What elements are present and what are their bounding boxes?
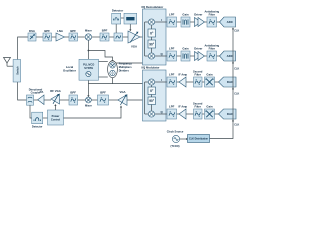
label VGA RX bbox=[131, 45, 137, 49]
ADC2 bbox=[220, 51, 236, 61]
wire mixer2 to BPF5 bbox=[91, 99, 97, 101]
amplifier VGA RX bbox=[128, 31, 140, 43]
label CLK 1 bbox=[234, 30, 239, 33]
svg-text:Frequency: Frequency bbox=[119, 62, 133, 66]
wire LO junction to multiplier oval bbox=[88, 51, 113, 63]
phase shifter 0deg demod bbox=[148, 29, 156, 37]
filter BPF3 bbox=[100, 33, 109, 41]
label Detector bbox=[112, 9, 124, 13]
svg-text:Gain: Gain bbox=[182, 46, 189, 50]
wire TXa row segments bbox=[177, 81, 219, 83]
wire coupler to detector3 bbox=[30, 105, 32, 118]
svg-text:Power: Power bbox=[52, 114, 60, 118]
wire detector1 tap bbox=[115, 24, 117, 33]
wire switch to RX chain (vertical riser) bbox=[18, 37, 28, 60]
node LO junction bbox=[88, 50, 90, 52]
wire power control to TX VGA bbox=[64, 106, 123, 119]
wire BPF1 to LNA bbox=[52, 36, 57, 38]
svg-text:PA: PA bbox=[40, 90, 44, 94]
svg-text:LPF: LPF bbox=[169, 104, 175, 108]
driver A1 bbox=[195, 18, 205, 27]
wire detector2 to VGA control bbox=[129, 24, 131, 31]
svg-text:LPF: LPF bbox=[169, 72, 175, 76]
wire LO to demodulator bbox=[99, 48, 152, 63]
label I/Q Demodulator bbox=[142, 5, 165, 9]
node I bbox=[161, 18, 162, 22]
svg-text:90°: 90° bbox=[149, 42, 155, 46]
svg-text:Mixer: Mixer bbox=[85, 103, 92, 107]
svg-text:Filter: Filter bbox=[209, 12, 215, 16]
PLL/VCO synthesizer U3 bbox=[79, 59, 99, 80]
power control U4 bbox=[48, 110, 64, 125]
svg-text:I/Q Modulator: I/Q Modulator bbox=[142, 65, 161, 69]
amplifier LNA bbox=[56, 33, 65, 41]
label BPF2 bbox=[70, 29, 76, 33]
svg-text:Gain: Gain bbox=[206, 72, 213, 76]
svg-text:BPF: BPF bbox=[44, 29, 50, 33]
svg-text:Driver: Driver bbox=[194, 46, 203, 50]
detector D2 RSSI bbox=[124, 13, 137, 24]
mixer U2b bbox=[148, 111, 154, 117]
phase shifter 90deg demod bbox=[148, 40, 156, 48]
amplifier TX VGA bbox=[118, 95, 127, 106]
node Q bbox=[161, 52, 164, 56]
label LPF I bbox=[169, 12, 175, 16]
wire demod Q output bbox=[155, 55, 167, 57]
svg-text:Gain: Gain bbox=[206, 104, 213, 108]
label CLK 2 bbox=[234, 68, 239, 71]
svg-text:Mixer: Mixer bbox=[85, 28, 92, 32]
svg-text:Filter: Filter bbox=[195, 72, 201, 76]
wire BPF5 to TX VGA bbox=[109, 99, 118, 101]
label DSA bbox=[29, 29, 35, 33]
wire demod input bus bbox=[145, 22, 149, 56]
svg-text:Oscillator: Oscillator bbox=[63, 68, 77, 72]
wire LO to modulator bbox=[88, 83, 142, 85]
amplifier RF VGA bbox=[51, 94, 60, 104]
filter second TXb bbox=[194, 109, 203, 119]
svg-text:I/Q Demodulator: I/Q Demodulator bbox=[142, 5, 165, 9]
svg-text:Switch: Switch bbox=[15, 66, 19, 75]
svg-text:BPF: BPF bbox=[70, 29, 76, 33]
svg-text:Detector: Detector bbox=[32, 124, 43, 128]
svg-text:90°: 90° bbox=[149, 99, 155, 103]
wire TXb row segments bbox=[177, 113, 219, 115]
node I mod bbox=[161, 78, 162, 82]
filter BPF5 bbox=[98, 95, 109, 105]
gain block G1 bbox=[181, 17, 190, 27]
svg-text:LNA: LNA bbox=[57, 29, 63, 33]
wire oval bottom tee bbox=[112, 78, 114, 84]
svg-text:SYNTH: SYNTH bbox=[84, 66, 93, 70]
filter LPF I bbox=[167, 17, 177, 27]
driver A2 bbox=[195, 52, 205, 61]
detector D1 bbox=[112, 13, 121, 24]
svg-text:CLK: CLK bbox=[234, 124, 239, 127]
wire LNA to BPF2 bbox=[65, 36, 70, 38]
filter LPF TXa bbox=[167, 77, 177, 87]
svg-text:Multipliers: Multipliers bbox=[119, 65, 133, 69]
label TX VGA bbox=[119, 90, 125, 94]
svg-text:VGA: VGA bbox=[119, 90, 125, 94]
svg-text:LPF: LPF bbox=[169, 12, 175, 16]
mixer M1 bbox=[85, 34, 91, 40]
antenna bbox=[4, 58, 11, 67]
wire switch to coupler (TX) bbox=[18, 82, 27, 100]
I/Q modulator U2 bbox=[143, 70, 167, 121]
ADC1 bbox=[220, 17, 236, 27]
wire detector link bbox=[121, 17, 124, 19]
wire BPF4 to mixer2 bbox=[78, 99, 86, 101]
label TCXO bbox=[171, 144, 180, 148]
svg-text:Driver: Driver bbox=[194, 12, 203, 16]
I/Q demodulator U1 bbox=[143, 9, 167, 65]
label BPF1 bbox=[44, 29, 50, 33]
mixer U1a bbox=[148, 19, 154, 25]
wire mixer1 to BPF3 bbox=[92, 36, 100, 38]
svg-text:CLK: CLK bbox=[234, 30, 239, 33]
svg-text:Dividers: Dividers bbox=[119, 69, 130, 73]
label Detector D3 bbox=[32, 124, 43, 128]
wire DSA to BPF1 bbox=[36, 36, 43, 38]
svg-text:VGA: VGA bbox=[131, 45, 137, 49]
label Mixer M1 bbox=[85, 28, 92, 32]
wire mod I input bbox=[155, 81, 167, 83]
svg-text:BPF: BPF bbox=[70, 90, 76, 94]
svg-text:Filter: Filter bbox=[195, 104, 201, 108]
wire mod Q input bbox=[155, 113, 167, 115]
label Driver A2 bbox=[194, 46, 203, 50]
detector D3 bbox=[32, 112, 43, 124]
wire PLL bottom to TX mixer bbox=[87, 80, 89, 97]
wire clock source to distribution bbox=[180, 138, 188, 140]
svg-text:ADC: ADC bbox=[227, 20, 234, 24]
label LPF TXa bbox=[169, 72, 175, 76]
switch SW1 bbox=[13, 60, 21, 83]
svg-text:CLK Distribution: CLK Distribution bbox=[189, 138, 209, 141]
label LNA bbox=[57, 29, 63, 33]
svg-text:CLK: CLK bbox=[234, 93, 239, 96]
label second filter TXa bbox=[193, 69, 203, 76]
label RF VGA bbox=[50, 89, 61, 93]
svg-text:Detector: Detector bbox=[112, 9, 124, 13]
gain block TXa bbox=[205, 77, 215, 87]
filter BPF1 bbox=[43, 33, 52, 41]
frequency multipliers dividers oval bbox=[108, 61, 118, 78]
local oscillator label bbox=[63, 65, 77, 73]
clock arrow to ADC1 bbox=[232, 27, 234, 29]
filter second TXa bbox=[194, 77, 203, 87]
amplifier IF Amp TXb bbox=[179, 109, 186, 119]
label AAF1 bbox=[204, 9, 219, 16]
clock arrow to DAC2 bbox=[232, 119, 234, 121]
wire PA to RF VGA bbox=[44, 99, 51, 101]
node Q mod bbox=[161, 110, 164, 114]
svg-text:IF Amp: IF Amp bbox=[178, 72, 187, 76]
label Driver A1 bbox=[194, 12, 203, 16]
filter BPF4 bbox=[69, 95, 78, 105]
label CLK 4 bbox=[234, 124, 239, 127]
label BPF5 bbox=[100, 90, 106, 94]
mixer U1b bbox=[148, 53, 154, 59]
wire demod phase column bbox=[151, 25, 153, 53]
svg-text:Filter: Filter bbox=[209, 46, 215, 50]
label LPF TXb bbox=[169, 104, 175, 108]
gain block TXb bbox=[205, 109, 215, 119]
label IF Amp TXb bbox=[178, 104, 187, 108]
svg-text:LPF: LPF bbox=[169, 46, 175, 50]
wire mod phase column bbox=[151, 85, 153, 111]
wire IF filter to VGA bbox=[123, 36, 129, 38]
svg-text:CLK: CLK bbox=[234, 68, 239, 71]
phase shifter 90deg mod bbox=[148, 97, 156, 105]
clock distribution line bbox=[210, 28, 234, 138]
wire I row segments bbox=[177, 21, 220, 23]
filter LPF Q bbox=[167, 51, 177, 61]
wire demod I output bbox=[155, 21, 167, 23]
clock arrow to DAC1 bbox=[232, 87, 234, 89]
label CLK 3 bbox=[234, 93, 239, 96]
wire coupler to PA bbox=[34, 99, 39, 101]
filter AAF1 bbox=[207, 17, 217, 27]
label BPF4 bbox=[70, 90, 76, 94]
label Mixer M2 bbox=[85, 103, 92, 107]
label AAF2 bbox=[204, 43, 219, 50]
label BPF3 bbox=[102, 28, 108, 32]
svg-text:BPF: BPF bbox=[102, 28, 108, 32]
wire PLL right lower stub bbox=[99, 76, 108, 78]
DAC1 bbox=[219, 77, 237, 87]
svg-text:BPF: BPF bbox=[100, 90, 106, 94]
clock arrow to ADC2 bbox=[232, 61, 234, 63]
amplifier IF Amp TXa bbox=[179, 77, 186, 87]
label second filter TXb bbox=[193, 101, 203, 108]
wire BPF3 to IF filter bbox=[109, 36, 114, 38]
wire mixer1 LO to PLL top bbox=[87, 40, 89, 59]
filter LPF TXb bbox=[167, 109, 177, 119]
filter IF SAW bbox=[114, 33, 123, 41]
label LPF Q bbox=[169, 46, 175, 50]
label IF Amp TXa bbox=[178, 72, 187, 76]
DAC2 bbox=[219, 109, 237, 119]
svg-text:(TCXO): (TCXO) bbox=[171, 144, 180, 148]
label Gain G2 bbox=[182, 46, 189, 50]
label Gain G1 bbox=[182, 12, 189, 16]
label directional coupler bbox=[29, 87, 43, 94]
label I/Q Modulator bbox=[142, 65, 161, 69]
label Gain TXa bbox=[206, 72, 213, 76]
svg-text:Gain: Gain bbox=[182, 12, 189, 16]
amplifier PA bbox=[38, 95, 44, 105]
wire RF VGA to BPF4 bbox=[60, 99, 70, 101]
label Gain TXb bbox=[206, 104, 213, 108]
svg-text:Control: Control bbox=[51, 117, 60, 121]
svg-text:Clock Source: Clock Source bbox=[167, 129, 184, 133]
svg-text:IF Amp: IF Amp bbox=[178, 104, 187, 108]
mixer M2 bbox=[86, 97, 92, 103]
wire Q row segments bbox=[177, 55, 220, 57]
clock source oscillator bbox=[172, 135, 179, 142]
wire detector3 to power control bbox=[43, 117, 48, 119]
svg-text:RF VGA: RF VGA bbox=[50, 89, 61, 93]
filter AAF2 bbox=[207, 51, 217, 61]
gain block G2 bbox=[181, 51, 190, 61]
attenuator DSA bbox=[28, 33, 36, 41]
wire power control to RF VGA bbox=[54, 104, 56, 110]
filter BPF2 bbox=[69, 33, 78, 41]
mixer U2a bbox=[148, 79, 154, 85]
wire VGA to demodulator bbox=[140, 36, 145, 38]
wire BPF2 to mixer1 bbox=[78, 36, 86, 38]
directional coupler DC1 bbox=[27, 95, 34, 105]
clock distribution U5 bbox=[188, 135, 210, 143]
svg-text:DSA: DSA bbox=[29, 29, 35, 33]
label frequency multipliers dividers bbox=[119, 62, 133, 73]
label PA bbox=[40, 90, 44, 94]
wire mod output bus bbox=[145, 82, 149, 114]
wire TX VGA to modulator bbox=[127, 99, 145, 101]
phase shifter 0deg mod bbox=[148, 87, 156, 95]
wire antenna to switch bbox=[7, 65, 13, 67]
label clock source bbox=[167, 129, 184, 133]
